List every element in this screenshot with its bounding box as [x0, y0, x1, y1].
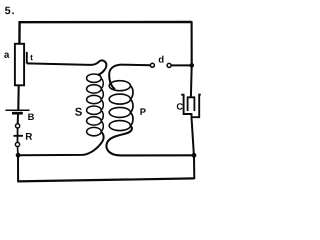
- wire rail capacitor to junction: [192, 117, 194, 155]
- svg-text:P: P: [140, 106, 146, 117]
- coil S entry wire from t: [27, 60, 107, 74]
- coil S turn 5: [87, 117, 102, 125]
- coil P turn 1: [109, 81, 130, 91]
- label a: [4, 50, 10, 61]
- wire circle to junction: [17, 147, 19, 155]
- coil P entry wire from switch: [109, 65, 150, 90]
- interrupter crossbar R: [14, 135, 24, 137]
- coil S turn 2: [87, 85, 102, 93]
- svg-text:B: B: [28, 112, 35, 122]
- svg-text:C: C: [176, 102, 183, 112]
- battery B short plate: [12, 112, 23, 115]
- junction node right-bottom: [192, 153, 197, 158]
- coil P exit wire to junction: [106, 126, 193, 156]
- wire resistor to battery: [17, 85, 20, 110]
- coil P turn 4: [109, 121, 130, 131]
- wire switch to rail: [171, 64, 192, 66]
- junction node left: [16, 153, 21, 158]
- contact tick t: [26, 52, 28, 64]
- coil S link 5: [101, 121, 103, 132]
- wire right rail upper: [191, 21, 193, 65]
- coil S link 4: [101, 110, 103, 121]
- label B: [28, 112, 35, 122]
- label R: [25, 132, 32, 143]
- wire left rail lower: [17, 155, 19, 181]
- svg-text:a: a: [4, 50, 10, 61]
- switch contact circle left: [150, 63, 154, 67]
- coil S link 2: [101, 89, 103, 100]
- coil P link 2: [131, 99, 133, 112]
- capacitor C outer plate: [181, 95, 201, 118]
- capacitor C inner plate: [188, 97, 195, 111]
- contact circle lower: [15, 142, 19, 146]
- coil S turn 3: [87, 95, 102, 103]
- coil P turn 2: [109, 94, 130, 104]
- svg-text:R: R: [25, 132, 32, 143]
- svg-text:t: t: [30, 52, 33, 62]
- label t: [30, 52, 33, 62]
- label P: [140, 106, 146, 117]
- wire battery to contact circle: [17, 114, 19, 123]
- coil S link 1: [101, 78, 103, 89]
- wire right rail lower: [193, 155, 195, 179]
- wire bottom: [17, 178, 194, 181]
- contact circle upper: [16, 124, 20, 128]
- switch contact circle right: [167, 63, 171, 67]
- resistor a: [15, 44, 24, 86]
- coil P link 3: [131, 112, 133, 125]
- battery B long plate: [5, 109, 29, 111]
- figure number 5.: [5, 5, 16, 17]
- svg-text:d: d: [158, 55, 164, 66]
- coil S turn 6: [87, 127, 102, 135]
- coil S link 3: [101, 100, 103, 111]
- coil S exit wire to junction: [18, 132, 103, 156]
- wire through interrupter R: [17, 128, 19, 142]
- coil S turn 4: [87, 106, 102, 114]
- label C: [176, 102, 183, 112]
- coil P link 1: [131, 86, 133, 99]
- wire top horizontal: [19, 21, 192, 24]
- label d: [158, 55, 164, 66]
- coil P turn 3: [109, 107, 130, 117]
- svg-text:S: S: [75, 107, 83, 119]
- label S: [75, 107, 83, 119]
- wire rail to capacitor top: [190, 65, 193, 97]
- wire top-left vertical drop: [18, 21, 21, 44]
- svg-text:5.: 5.: [5, 5, 16, 17]
- coil S turn 1: [87, 74, 102, 82]
- junction node switch: [189, 63, 194, 68]
